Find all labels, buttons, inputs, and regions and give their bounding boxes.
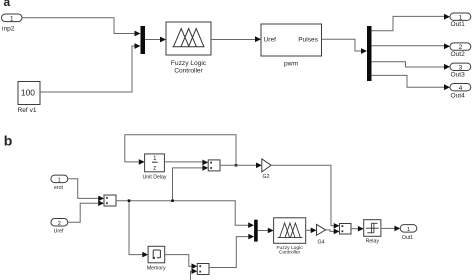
node J3 feedback junction and loop to Unit Delay: [125, 135, 238, 167]
node J1 branch down to Memory: [128, 199, 148, 257]
svg-text:Out3: Out3: [451, 72, 466, 79]
svg-text:Ref v1: Ref v1: [18, 107, 37, 114]
inport erot (port 1): [51, 175, 68, 191]
wire M2b to gain G2: [220, 163, 262, 169]
constant block 100 Ref v1: [18, 82, 41, 115]
node J2 branch up to mux M2b: [171, 165, 208, 202]
svg-text:Out1: Out1: [451, 21, 466, 28]
outport Out4: [450, 84, 471, 100]
mux M1a: [141, 26, 146, 54]
block Memory: [147, 246, 166, 271]
svg-text:Memory: Memory: [147, 266, 166, 272]
block Relay: [364, 220, 381, 245]
wire mux M1a to Fuzzy Logic Controller U1: [145, 37, 166, 43]
wire M5b to Fuzzy Logic Controller U2: [258, 228, 274, 234]
svg-text:Unit Delay: Unit Delay: [143, 175, 167, 181]
wire pwm Pulses to demux D1: [322, 39, 368, 54]
outport Out1: [450, 13, 471, 28]
svg-text:2: 2: [459, 44, 463, 51]
block Fuzzy Logic Controller U2: [274, 218, 306, 256]
svg-text:Out4: Out4: [451, 93, 466, 100]
wire D1 to Out2: [372, 43, 451, 49]
svg-text:1: 1: [407, 227, 410, 233]
wire inp2 to mux M1a: [22, 18, 141, 37]
wire Ref v1 to mux M1a: [40, 43, 141, 92]
wire D1 to Out4: [372, 75, 451, 90]
svg-text:Relay: Relay: [366, 239, 380, 245]
mux M3b: [340, 224, 352, 235]
svg-text:erot: erot: [54, 185, 63, 191]
wire Memory to mux M4b input 1: [165, 255, 198, 269]
outport Out1 (diagram b): [400, 225, 417, 241]
svg-text:Controller: Controller: [174, 68, 203, 75]
mux M5b: [254, 220, 258, 242]
outport Out2: [450, 43, 471, 58]
inport inp2 (port 1): [2, 14, 23, 33]
block Fuzzy Logic Controller U1: [166, 22, 211, 75]
svg-text:pwm: pwm: [284, 61, 298, 68]
svg-text:3: 3: [459, 64, 463, 71]
svg-text:z: z: [153, 166, 156, 172]
wire M4b to mux M5b input 2: [209, 234, 254, 268]
label a: [4, 0, 11, 9]
wire U1 to pwm: [211, 36, 261, 42]
wire from bottom edge to mux M4b input 2: [191, 268, 198, 280]
wire G2 to mux M3b input 1: [271, 165, 339, 228]
svg-text:Out2: Out2: [451, 51, 466, 58]
mux M4b: [197, 264, 209, 275]
wire Unit Delay to mux M2b: [164, 160, 208, 166]
svg-text:Pulses: Pulses: [298, 37, 318, 44]
gain G4: [317, 224, 326, 245]
svg-text:4: 4: [459, 85, 463, 92]
svg-text:inp2: inp2: [2, 26, 15, 33]
subsystem block pwm: [261, 24, 322, 68]
demux D1: [367, 26, 372, 81]
gain G2: [262, 159, 271, 180]
block Unit Delay: [143, 154, 167, 181]
svg-text:100: 100: [21, 87, 35, 97]
mux M1b: [104, 195, 116, 206]
svg-text:Out1: Out1: [402, 235, 413, 241]
label b: [4, 133, 13, 149]
svg-text:b: b: [4, 133, 13, 149]
wire G4 to mux M3b input 2: [326, 229, 340, 235]
wire M3b to Relay: [351, 226, 364, 232]
svg-text:G2: G2: [263, 174, 270, 180]
mux M2b: [208, 160, 220, 171]
wire U2 to gain G4: [306, 228, 317, 234]
inport Uref (port 2): [51, 219, 68, 235]
wire D1 to Out3: [372, 62, 451, 70]
svg-text:2: 2: [58, 221, 61, 227]
wire Uref to mux M1b: [68, 200, 104, 222]
svg-text:1: 1: [10, 15, 14, 22]
svg-text:a: a: [4, 0, 11, 9]
svg-text:Uref: Uref: [264, 37, 277, 44]
svg-text:1: 1: [58, 177, 61, 183]
outport Out3: [450, 63, 471, 79]
wire erot to mux M1b: [68, 179, 104, 201]
svg-text:G4: G4: [318, 240, 325, 246]
wire Relay to outport Out1: [381, 226, 400, 232]
wire D1 to Out1: [372, 14, 451, 31]
svg-text:Controller: Controller: [279, 250, 301, 256]
svg-text:Uref: Uref: [54, 228, 64, 234]
svg-text:Fuzzy Logic: Fuzzy Logic: [171, 60, 207, 67]
wire M1b output bus: [116, 201, 254, 228]
